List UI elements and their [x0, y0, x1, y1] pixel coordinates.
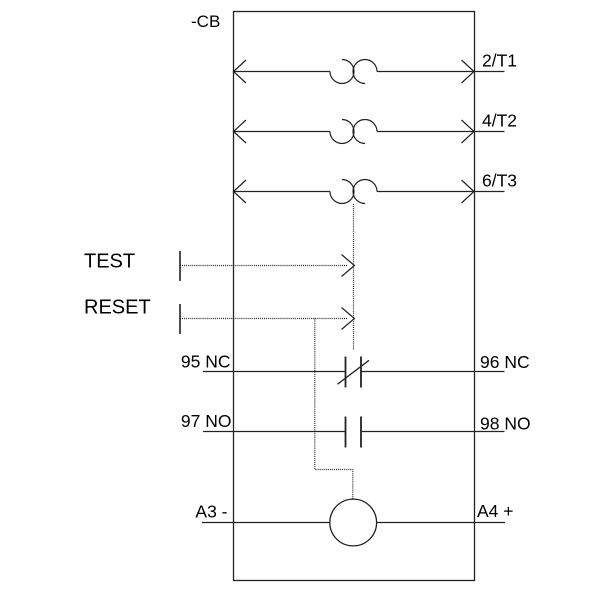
- svg-text:RESET: RESET: [84, 297, 151, 319]
- svg-text:TEST: TEST: [84, 251, 135, 273]
- svg-text:97 NO: 97 NO: [181, 411, 232, 431]
- svg-text:6/T3: 6/T3: [482, 171, 517, 191]
- svg-text:2/T1: 2/T1: [482, 51, 517, 71]
- svg-text:96 NC: 96 NC: [480, 352, 530, 372]
- svg-text:A4 +: A4 +: [477, 501, 514, 521]
- svg-text:4/T2: 4/T2: [482, 111, 517, 131]
- svg-text:95 NC: 95 NC: [181, 352, 231, 372]
- svg-text:A3 -: A3 -: [195, 502, 227, 522]
- svg-text:98 NO: 98 NO: [480, 414, 531, 434]
- svg-text:-CB: -CB: [191, 12, 220, 31]
